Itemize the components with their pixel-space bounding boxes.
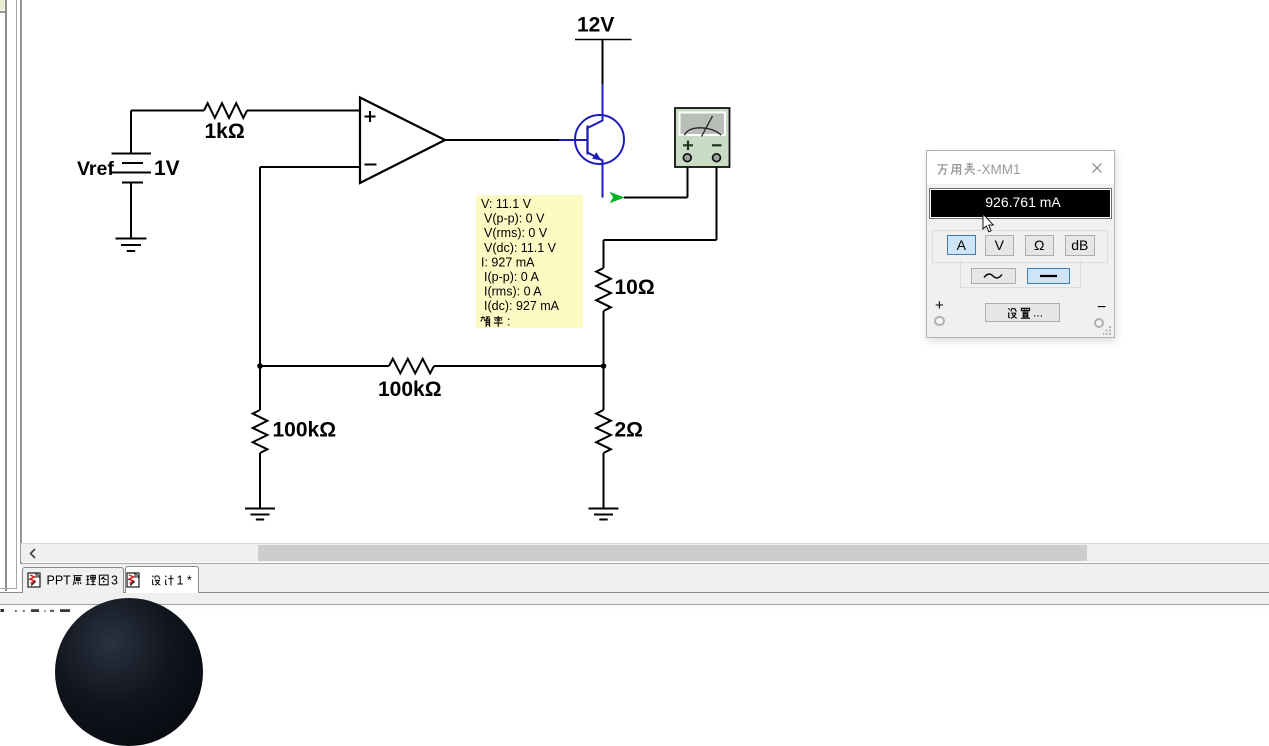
svg-text:2Ω: 2Ω (615, 419, 644, 442)
svg-text:-XMM1: -XMM1 (977, 162, 1021, 177)
svg-text:3: 3 (111, 574, 118, 588)
svg-text:PPT: PPT (46, 574, 71, 588)
svg-text:1 *: 1 * (177, 574, 192, 588)
svg-text:Vref: Vref (77, 158, 114, 180)
svg-text:100kΩ: 100kΩ (273, 419, 337, 442)
svg-text:12V: 12V (577, 14, 614, 37)
svg-text:V(dc): 11.1 V: V(dc): 11.1 V (484, 241, 557, 255)
svg-text:V: 11.1 V: V: 11.1 V (481, 197, 532, 211)
svg-text::: : (507, 314, 510, 328)
svg-text:100kΩ: 100kΩ (378, 378, 442, 401)
svg-text:10Ω: 10Ω (615, 276, 655, 299)
svg-text:I(p-p): 0 A: I(p-p): 0 A (484, 270, 540, 284)
svg-text:1V: 1V (154, 157, 180, 180)
svg-text:1kΩ: 1kΩ (205, 120, 245, 143)
svg-text:I(rms): 0 A: I(rms): 0 A (484, 285, 542, 299)
svg-text:I: 927 mA: I: 927 mA (481, 255, 535, 269)
svg-text:V(p-p): 0 V: V(p-p): 0 V (484, 212, 545, 226)
svg-text:I(dc): 927 mA: I(dc): 927 mA (484, 299, 560, 313)
svg-text:V(rms): 0 V: V(rms): 0 V (484, 226, 548, 240)
svg-text:...: ... (1033, 306, 1043, 320)
